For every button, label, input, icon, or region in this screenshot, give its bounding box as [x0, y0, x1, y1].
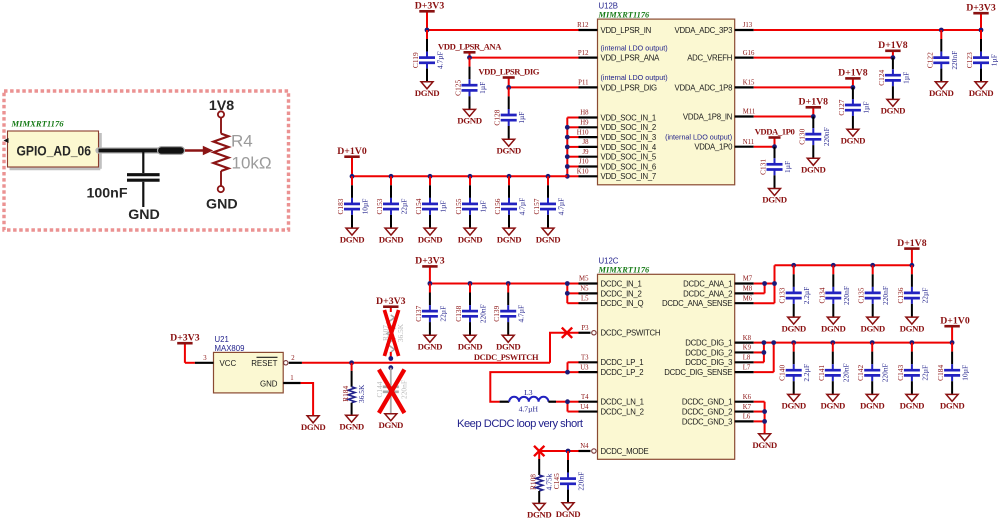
- svg-text:2: 2: [291, 355, 295, 362]
- svg-text:10µF: 10µF: [961, 365, 970, 381]
- svg-text:4.7µF: 4.7µF: [518, 198, 527, 216]
- svg-text:C134: C134: [817, 287, 826, 303]
- svg-text:VCC: VCC: [220, 359, 237, 368]
- ground DGND (C157): [542, 228, 554, 235]
- svg-text:C122: C122: [925, 52, 934, 68]
- svg-text:D+3V3: D+3V3: [376, 296, 406, 307]
- ground DGND (R184): [346, 415, 358, 422]
- wire DCDC_GND: [754, 402, 765, 434]
- node junction C143: [910, 340, 915, 345]
- svg-text:D+1V8: D+1V8: [878, 40, 908, 51]
- pin 3 VCC: [195, 355, 237, 368]
- svg-text:220nF: 220nF: [841, 363, 850, 382]
- svg-text:2.2µF: 2.2µF: [802, 287, 811, 305]
- svg-text:H9: H9: [580, 120, 589, 127]
- wire ADC_VREFH: [754, 57, 893, 59]
- node junction C157: [546, 174, 551, 179]
- svg-text:(internal LDO output): (internal LDO output): [601, 73, 668, 82]
- svg-text:DGND: DGND: [379, 420, 404, 430]
- node junction C135: [870, 263, 875, 268]
- svg-text:DGND: DGND: [418, 342, 443, 352]
- svg-text:ADC_VREFH: ADC_VREFH: [687, 54, 732, 63]
- svg-text:L8: L8: [743, 355, 751, 362]
- svg-text:22µF: 22µF: [400, 199, 409, 215]
- svg-text:DCDC_IN_1: DCDC_IN_1: [601, 279, 642, 288]
- svg-text:DGND: DGND: [340, 234, 365, 244]
- wire VDD_SOC pin stubs: [567, 118, 578, 177]
- svg-text:4.7µF: 4.7µF: [517, 305, 526, 323]
- resistor R107 36.5K (DNP): [381, 315, 405, 359]
- ground DGND (C145): [562, 503, 574, 510]
- capacitor C183: [336, 176, 370, 228]
- arrow to R4: [185, 146, 213, 155]
- svg-text:DGND: DGND: [781, 323, 806, 333]
- svg-text:DGND: DGND: [496, 342, 521, 352]
- pin G16 ADC_VREFH: [687, 50, 755, 63]
- svg-text:220nF: 220nF: [881, 363, 890, 382]
- svg-text:VDD_SOC_IN_2: VDD_SOC_IN_2: [601, 123, 657, 132]
- node junction C137: [428, 281, 433, 286]
- power D+3V3 (VDD_LPSR_IN): [426, 11, 428, 30]
- pin L8 DCDC_DIG_3: [685, 355, 753, 368]
- pin N4 DCDC_MODE: [579, 443, 649, 456]
- svg-text:VDDA_ADC_3P3: VDDA_ADC_3P3: [675, 26, 733, 35]
- svg-text:DGND: DGND: [969, 88, 994, 98]
- svg-text:C153: C153: [375, 198, 384, 214]
- node junction C156: [507, 174, 512, 179]
- svg-text:M8: M8: [743, 286, 753, 293]
- ground DGND (C123): [975, 82, 987, 89]
- svg-text:C183: C183: [336, 198, 345, 214]
- svg-text:D+1V8: D+1V8: [799, 97, 829, 108]
- svg-text:DGND: DGND: [418, 234, 443, 244]
- pin L6 DCDC_GND_3: [682, 414, 754, 427]
- pin K15 VDDA_ADC_1P8: [675, 80, 755, 93]
- pin M5 DCDC_IN_1: [579, 276, 642, 289]
- capacitor C130: [797, 117, 831, 159]
- svg-text:1µF: 1µF: [990, 54, 999, 66]
- svg-text:VDD_LPSR_IN: VDD_LPSR_IN: [601, 26, 652, 35]
- pin J8 VDD_SOC_IN_4: [579, 139, 657, 152]
- capacitor C135: [857, 265, 891, 317]
- wire VDD_LPSR_DIG: [509, 86, 579, 88]
- no-fit cross C144: [379, 370, 405, 414]
- pin M6 DCDC_ANA_SENSE: [662, 295, 754, 308]
- resistor R184 36.5K: [341, 363, 366, 415]
- svg-text:D+3V3: D+3V3: [966, 2, 996, 13]
- node junction C136: [910, 263, 915, 268]
- svg-text:GND: GND: [128, 207, 160, 223]
- svg-text:C130: C130: [797, 128, 806, 144]
- capacitor C119: [411, 30, 445, 82]
- svg-text:J13: J13: [743, 22, 753, 29]
- node junction C140: [791, 340, 796, 345]
- svg-text:L6: L6: [743, 414, 751, 421]
- capacitor C134: [817, 265, 851, 317]
- pin K8 DCDC_DIG_1: [685, 335, 753, 348]
- svg-text:DCDC_ANA_2: DCDC_ANA_2: [683, 289, 732, 298]
- wire VDD_LPSR_IN: [427, 29, 579, 31]
- svg-text:DGND: DGND: [752, 440, 777, 450]
- pin J13 VDDA_ADC_3P3: [675, 22, 754, 35]
- node junction C155: [468, 174, 473, 179]
- svg-text:D+3V3: D+3V3: [415, 256, 445, 267]
- svg-text:10kΩ: 10kΩ: [232, 154, 272, 173]
- svg-text:220nF: 220nF: [577, 472, 586, 491]
- node junction C183: [350, 174, 355, 179]
- ground DGND (C124): [887, 99, 899, 106]
- ground DGND (C138): [464, 335, 476, 342]
- svg-text:36.5K: 36.5K: [396, 323, 405, 342]
- svg-text:220nF: 220nF: [950, 51, 959, 70]
- svg-text:C184: C184: [936, 364, 945, 380]
- svg-text:L7: L7: [743, 364, 751, 371]
- pin T3 DCDC_LP_1: [579, 355, 644, 368]
- wire VDDA_1P8_IN: [754, 116, 814, 118]
- svg-text:J10: J10: [579, 159, 589, 166]
- component GPIO_AD_06 port: [4, 131, 101, 169]
- power D+1V0 (DCDC_DIG): [951, 326, 953, 342]
- capacitor C128: [493, 87, 527, 139]
- svg-text:100nF: 100nF: [86, 186, 127, 202]
- ground DGND (C136): [906, 317, 918, 324]
- ground DGND (C137): [424, 335, 436, 342]
- op-amp U12C MIMXRT1176 body: [598, 257, 735, 460]
- ground DGND (C119): [421, 82, 433, 89]
- svg-text:H8: H8: [580, 110, 589, 117]
- svg-text:DGND: DGND: [379, 234, 404, 244]
- svg-text:GND: GND: [206, 196, 238, 212]
- svg-text:N11: N11: [743, 139, 754, 146]
- power D+3V3 (DCDC_IN): [429, 266, 431, 283]
- svg-text:3: 3: [203, 355, 207, 362]
- svg-text:DCDC_DIG_2: DCDC_DIG_2: [685, 348, 732, 357]
- svg-text:22µF: 22µF: [438, 306, 447, 322]
- power port VDD_LPSR_DIG: [508, 78, 510, 88]
- svg-text:DCDC_GND_3: DCDC_GND_3: [682, 417, 732, 426]
- capacitor C141: [817, 343, 851, 395]
- svg-text:U12C: U12C: [599, 257, 619, 266]
- svg-text:VDDA_ADC_1P8: VDDA_ADC_1P8: [675, 83, 733, 92]
- svg-text:N4: N4: [580, 443, 589, 450]
- wire VDDA_ADC_1P8: [754, 86, 853, 88]
- svg-text:220nF: 220nF: [822, 127, 831, 146]
- svg-text:DCDC_GND_1: DCDC_GND_1: [682, 398, 732, 407]
- power D+3V3 (U21 VCC): [184, 343, 186, 363]
- svg-text:P12: P12: [578, 50, 589, 57]
- wire U21 GND to DGND: [301, 383, 314, 416]
- svg-text:DCDC_DIG_SENSE: DCDC_DIG_SENSE: [664, 368, 732, 377]
- svg-text:VDD_LPSR_ANA: VDD_LPSR_ANA: [601, 54, 661, 63]
- node junction C124: [891, 55, 896, 60]
- pin T4 DCDC_LN_1: [579, 394, 644, 407]
- node VDD_LPSR_DIG junction: [506, 85, 511, 90]
- svg-text:DCDC_ANA_SENSE: DCDC_ANA_SENSE: [662, 299, 732, 308]
- node junction C141: [830, 340, 835, 345]
- svg-text:36.5K: 36.5K: [357, 384, 366, 403]
- pin P3 DCDC_PSWITCH: [579, 325, 661, 338]
- resistor R108 4.75k: [528, 451, 553, 503]
- node junction C138: [468, 281, 473, 286]
- pin H9 VDD_SOC_IN_2: [579, 120, 657, 133]
- inductor L3 4.7uH: [500, 388, 556, 413]
- capacitor C123: [965, 30, 999, 82]
- wire DCDC_IN bus: [430, 284, 579, 304]
- capacitor C127: [837, 87, 871, 129]
- capacitor C140: [778, 343, 812, 395]
- capacitor C154: [414, 176, 448, 228]
- node junction C153: [389, 174, 394, 179]
- svg-text:DCDC_GND_2: DCDC_GND_2: [682, 407, 732, 416]
- svg-text:VDDA_1P0: VDDA_1P0: [694, 143, 733, 152]
- svg-text:DGND: DGND: [415, 88, 440, 98]
- node junction C130: [811, 114, 816, 119]
- pin H8 VDD_SOC_IN_1: [579, 110, 657, 123]
- svg-text:R12: R12: [577, 22, 589, 29]
- svg-text:C138: C138: [454, 305, 463, 321]
- svg-text:Keep DCDC loop very short: Keep DCDC loop very short: [457, 418, 584, 430]
- power D+1V8 (ADC_VREFH): [892, 51, 894, 58]
- capacitor C137: [414, 284, 448, 336]
- node junction C127: [851, 85, 856, 90]
- svg-text:VDD_SOC_IN_1: VDD_SOC_IN_1: [601, 113, 657, 122]
- svg-text:C124: C124: [877, 69, 886, 85]
- pin R12 VDD_LPSR_IN: [577, 22, 651, 35]
- svg-text:VDD_LPSR_ANA: VDD_LPSR_ANA: [438, 42, 502, 52]
- ground DGND (C139): [502, 335, 514, 342]
- svg-text:GPIO_AD_06: GPIO_AD_06: [17, 144, 92, 159]
- svg-text:1µF: 1µF: [861, 102, 870, 114]
- svg-text:VDD_SOC_IN_5: VDD_SOC_IN_5: [601, 153, 657, 162]
- wire DCDC_LP loop: [490, 362, 578, 401]
- svg-text:D+1V8: D+1V8: [838, 68, 868, 79]
- node junction C133: [791, 263, 796, 268]
- svg-text:DCDC_DIG_3: DCDC_DIG_3: [685, 358, 732, 367]
- wire DCDC_MODE: [539, 450, 578, 452]
- ground DGND (C144): [385, 414, 397, 421]
- svg-text:1µF: 1µF: [439, 200, 448, 212]
- svg-text:DCDC_IN_2: DCDC_IN_2: [601, 289, 642, 298]
- node VDD_LPSR_ANA junction: [467, 55, 472, 60]
- pin K10 VDD_SOC_IN_7: [577, 169, 656, 182]
- svg-text:DGND: DGND: [881, 106, 906, 116]
- ground DGND (C133): [788, 317, 800, 324]
- svg-text:1: 1: [290, 375, 293, 382]
- svg-text:GND: GND: [260, 379, 278, 388]
- svg-text:22µF: 22µF: [920, 365, 929, 381]
- ground DGND (C134): [827, 317, 839, 324]
- svg-text:DGND: DGND: [801, 165, 826, 175]
- svg-text:M5: M5: [579, 276, 589, 283]
- ground DGND (C156): [503, 228, 515, 235]
- svg-text:C139: C139: [492, 305, 501, 321]
- svg-text:DGND: DGND: [781, 401, 806, 411]
- svg-text:VDDA_1P8_IN: VDDA_1P8_IN: [683, 112, 732, 121]
- svg-text:N5: N5: [580, 286, 589, 293]
- pin P11 VDD_LPSR_DIG: [578, 73, 667, 92]
- wire DCDC_LN: [556, 402, 579, 412]
- ground DGND (C141): [827, 394, 839, 401]
- svg-text:C125: C125: [454, 79, 463, 95]
- svg-text:DGND: DGND: [762, 195, 787, 205]
- power D+1V8 (VDDA_1P8_IN): [812, 107, 814, 116]
- wire DCDC_PSWITCH: [302, 333, 579, 363]
- ground DGND (C155): [464, 228, 476, 235]
- svg-text:D+1V0: D+1V0: [940, 315, 970, 326]
- pin M8 DCDC_ANA_2: [683, 286, 754, 299]
- capacitor C155: [454, 176, 488, 228]
- svg-text:MIMXRT1176: MIMXRT1176: [598, 10, 651, 19]
- ground DGND (C142): [866, 394, 878, 401]
- op-amp U12B MIMXRT1176 body: [598, 2, 735, 185]
- svg-text:C144: C144: [375, 381, 384, 397]
- svg-text:D+1V8: D+1V8: [897, 238, 927, 249]
- svg-text:DCDC_PSWITCH: DCDC_PSWITCH: [474, 353, 539, 362]
- svg-text:U12B: U12B: [599, 2, 619, 11]
- svg-text:(internal LDO output): (internal LDO output): [665, 133, 732, 142]
- capacitor C125: [454, 58, 488, 110]
- svg-text:DGND: DGND: [821, 323, 846, 333]
- svg-text:1µF: 1µF: [479, 200, 488, 212]
- wire VDDA_1P0: [754, 146, 775, 148]
- svg-text:DCDC_LN_2: DCDC_LN_2: [601, 407, 644, 416]
- svg-text:4.7µF: 4.7µF: [436, 51, 445, 69]
- pin N5 DCDC_IN_2: [579, 286, 642, 299]
- svg-text:U3: U3: [580, 364, 589, 371]
- svg-text:DGND: DGND: [496, 145, 521, 155]
- node junction C139: [506, 281, 511, 286]
- svg-text:220nF: 220nF: [842, 286, 851, 305]
- capacitor C138: [454, 284, 488, 336]
- ground DGND (C140): [788, 394, 800, 401]
- no-ERC cross P3: [562, 328, 572, 338]
- power D+1V8 (VDDA_ADC_1P8): [852, 78, 854, 87]
- node junction C154: [428, 174, 433, 179]
- svg-text:L5: L5: [581, 295, 589, 302]
- capacitor C131: [759, 147, 793, 189]
- capacitor C142: [856, 343, 890, 395]
- capacitor 100nF: [86, 151, 159, 208]
- svg-text:C136: C136: [896, 287, 905, 303]
- node junction LN: [565, 399, 570, 404]
- pin P12 VDD_LPSR_ANA: [578, 43, 668, 62]
- svg-text:220nF: 220nF: [881, 286, 890, 305]
- ground DGND (C153): [385, 228, 397, 235]
- svg-text:C141: C141: [817, 364, 826, 380]
- pin U3 DCDC_LP_2: [579, 364, 644, 377]
- svg-text:T4: T4: [581, 394, 589, 401]
- svg-text:K15: K15: [743, 80, 755, 87]
- ground DGND (C130): [807, 158, 819, 165]
- svg-text:VDD_SOC_IN_3: VDD_SOC_IN_3: [601, 133, 657, 142]
- svg-text:C140: C140: [778, 364, 787, 380]
- capacitor C136: [896, 265, 930, 317]
- dashed highlight region: [4, 91, 289, 230]
- svg-text:C156: C156: [493, 198, 502, 214]
- wire VDD_SOC bus vertical: [566, 118, 568, 177]
- capacitor C143: [896, 343, 930, 395]
- svg-text:R4: R4: [231, 131, 253, 150]
- svg-text:4.7µH: 4.7µH: [519, 404, 539, 413]
- svg-text:VDD_SOC_IN_4: VDD_SOC_IN_4: [601, 143, 657, 152]
- svg-text:DGND: DGND: [860, 401, 885, 411]
- svg-text:C155: C155: [454, 198, 463, 214]
- svg-text:C142: C142: [856, 364, 865, 380]
- capacitor C133: [778, 265, 812, 317]
- capacitor C156: [493, 176, 527, 228]
- ground DGND (C125): [464, 109, 476, 116]
- svg-text:1µF: 1µF: [783, 161, 792, 173]
- svg-text:MIMXRT1176: MIMXRT1176: [11, 119, 65, 129]
- svg-text:DGND: DGND: [536, 234, 561, 244]
- capacitor C157: [532, 176, 566, 228]
- node junction C123: [979, 28, 984, 33]
- power D+3V3 (VDDA_ADC_3P3): [980, 13, 982, 30]
- svg-text:M7: M7: [743, 276, 753, 283]
- svg-text:DGND: DGND: [458, 342, 483, 352]
- svg-text:C123: C123: [965, 52, 974, 68]
- pin H10 VDD_SOC_IN_3: [577, 129, 656, 142]
- node DCDC_GND junctions: [762, 409, 767, 424]
- svg-text:DGND: DGND: [841, 135, 866, 145]
- ground DGND (C128): [503, 139, 515, 146]
- svg-text:T3: T3: [581, 355, 589, 362]
- svg-text:C119: C119: [411, 52, 420, 68]
- svg-text:10µF: 10µF: [361, 199, 370, 215]
- svg-text:DGND: DGND: [900, 401, 925, 411]
- node VDD_SOC junctions: [565, 125, 570, 179]
- svg-text:DCDC_LP_2: DCDC_LP_2: [601, 368, 644, 377]
- node junctions R107/C144: [388, 356, 393, 370]
- svg-text:DCDC_IN_Q: DCDC_IN_Q: [601, 299, 644, 308]
- svg-text:K7: K7: [743, 404, 752, 411]
- capacitor C153: [375, 176, 409, 228]
- wire VDD_SOC horizontal bus: [352, 175, 567, 177]
- svg-text:DGND: DGND: [556, 509, 581, 519]
- svg-text:DGND: DGND: [301, 422, 326, 432]
- svg-text:DGND: DGND: [821, 401, 846, 411]
- resistor R4: [214, 111, 272, 192]
- svg-text:DCDC_LN_1: DCDC_LN_1: [601, 398, 644, 407]
- svg-text:DGND: DGND: [457, 116, 482, 126]
- ground DGND (U21): [307, 416, 319, 423]
- svg-text:RESET: RESET: [251, 359, 277, 368]
- svg-text:C133: C133: [778, 287, 787, 303]
- svg-text:C128: C128: [493, 109, 502, 125]
- ground DGND (C135): [867, 317, 879, 324]
- svg-text:DGND: DGND: [860, 323, 885, 333]
- svg-text:D+1V0: D+1V0: [337, 146, 367, 157]
- svg-text:C157: C157: [532, 198, 541, 214]
- capacitor C122: [925, 30, 959, 82]
- svg-text:DCDC_PSWITCH: DCDC_PSWITCH: [601, 329, 661, 338]
- svg-text:1µF: 1µF: [478, 82, 487, 94]
- svg-text:R184: R184: [341, 385, 350, 401]
- capacitor C124: [877, 58, 911, 100]
- wire DCDC_DIG bus: [754, 343, 952, 373]
- capacitor C139: [492, 284, 526, 336]
- svg-text:DGND: DGND: [458, 234, 483, 244]
- svg-text:D+3V3: D+3V3: [415, 1, 445, 12]
- svg-text:VDD_LPSR_DIG: VDD_LPSR_DIG: [601, 83, 658, 92]
- svg-text:DCDC_LP_1: DCDC_LP_1: [601, 358, 644, 367]
- pin 2 RESET: [251, 355, 302, 368]
- node junction C131: [772, 144, 777, 149]
- pin K7 DCDC_GND_2: [682, 404, 754, 417]
- node junction C134: [831, 263, 836, 268]
- svg-text:K9: K9: [743, 345, 752, 352]
- svg-text:R108: R108: [528, 474, 537, 490]
